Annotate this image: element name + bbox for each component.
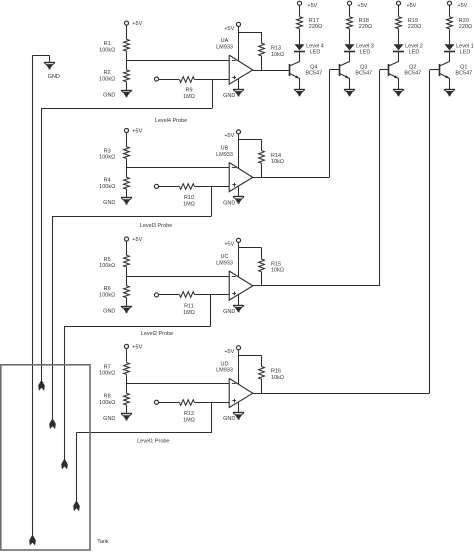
svg-text:10kΩ: 10kΩ bbox=[271, 52, 284, 58]
svg-text:GND: GND bbox=[223, 416, 235, 422]
op-amp UC LM933 bbox=[229, 271, 253, 300]
wire emitter to ground bbox=[449, 78, 451, 89]
wire Q1 base lead bbox=[430, 69, 439, 71]
resistor R3 100k bbox=[124, 147, 130, 159]
svg-text:GND: GND bbox=[223, 200, 235, 206]
svg-text:220Ω: 220Ω bbox=[359, 24, 372, 30]
resistor R5 100k bbox=[124, 255, 130, 267]
probe electrode arrow bbox=[49, 419, 56, 429]
wire to pull-up bbox=[238, 139, 261, 141]
ground (op-amp) bbox=[233, 196, 244, 198]
svg-text:+5V: +5V bbox=[132, 21, 142, 27]
+5V terminal (op-amp supply) bbox=[236, 238, 240, 242]
svg-text:BC547: BC547 bbox=[355, 70, 372, 76]
svg-text:1MΩ: 1MΩ bbox=[183, 417, 195, 423]
svg-text:Level4 Probe: Level4 Probe bbox=[155, 118, 187, 124]
wire riser UB output to Q3 base bbox=[329, 70, 331, 178]
svg-text:100kΩ: 100kΩ bbox=[99, 47, 115, 53]
wire bbox=[158, 402, 179, 404]
svg-text:LED: LED bbox=[409, 50, 420, 56]
ground electrode arrow bbox=[29, 536, 36, 546]
wire bbox=[126, 132, 128, 146]
svg-text:LED: LED bbox=[360, 50, 371, 56]
svg-text:R16: R16 bbox=[271, 369, 281, 375]
svg-text:R11: R11 bbox=[184, 304, 194, 310]
resistor R13 10k pull-up bbox=[259, 43, 265, 56]
+5V terminal (divider R1/R2) bbox=[124, 21, 128, 25]
wire to + input bbox=[195, 186, 230, 188]
wire bbox=[126, 51, 128, 70]
wire bbox=[158, 79, 179, 81]
ground (Q1 emitter) bbox=[444, 89, 455, 91]
svg-text:Level3 Probe: Level3 Probe bbox=[140, 223, 172, 229]
svg-text:100kΩ: 100kΩ bbox=[99, 155, 115, 161]
wire bbox=[449, 52, 451, 62]
wire divider junction to - input bbox=[126, 60, 229, 62]
transistor Q4 BC547 bbox=[289, 64, 291, 76]
svg-text:BC547: BC547 bbox=[455, 70, 472, 76]
svg-text:GND: GND bbox=[103, 93, 115, 99]
wire bbox=[349, 52, 351, 62]
svg-text:220Ω: 220Ω bbox=[459, 24, 472, 30]
wire bbox=[299, 52, 301, 62]
+5V terminal (divider R5/R6) bbox=[124, 237, 128, 241]
wire output UB bbox=[253, 177, 330, 179]
svg-text:Level2 Probe: Level2 Probe bbox=[141, 331, 173, 337]
svg-text:Tank: Tank bbox=[97, 539, 109, 545]
wire output UD bbox=[253, 393, 430, 395]
wire output UA bbox=[253, 70, 289, 72]
transistor Q1 BC547 bbox=[439, 64, 441, 76]
wire to pull-up bbox=[238, 32, 261, 34]
wire emitter to ground bbox=[398, 78, 400, 89]
wire bbox=[398, 52, 400, 62]
op-amp UD LM933 bbox=[229, 378, 253, 407]
transistor Q3 BC547 bbox=[339, 64, 341, 76]
resistor R2 100k bbox=[124, 70, 130, 82]
+5V terminal (Q1 column) bbox=[447, 1, 451, 5]
wire bbox=[126, 348, 128, 362]
wire V+ pin bbox=[238, 134, 240, 169]
tank bbox=[1, 365, 90, 550]
svg-text:+5V: +5V bbox=[132, 129, 142, 135]
resistor R20 220 bbox=[447, 17, 453, 29]
op-amp UB LM933 bbox=[229, 163, 253, 192]
wire bbox=[158, 294, 179, 296]
svg-text:+5V: +5V bbox=[406, 3, 416, 9]
ground (op-amp) bbox=[233, 89, 244, 91]
LED Level 1 LED bbox=[445, 44, 455, 50]
wire probe net Level3 Probe bbox=[211, 186, 213, 216]
+5V terminal (Q4 column) bbox=[297, 1, 301, 5]
svg-text:LM933: LM933 bbox=[216, 152, 233, 158]
svg-text:+5V: +5V bbox=[224, 349, 234, 355]
wire bbox=[349, 5, 351, 17]
svg-text:R15: R15 bbox=[271, 261, 281, 267]
svg-text:UC: UC bbox=[221, 254, 229, 260]
+5V terminal (op-amp supply) bbox=[236, 130, 240, 134]
wire bbox=[126, 189, 128, 198]
svg-text:R6: R6 bbox=[104, 286, 111, 292]
wire bbox=[126, 267, 128, 286]
svg-text:GND: GND bbox=[223, 93, 235, 99]
svg-text:LED: LED bbox=[460, 50, 471, 56]
wire pull-up to output bbox=[261, 163, 263, 177]
wire ground electrode into tank bbox=[32, 56, 34, 538]
ground (divider) bbox=[121, 90, 132, 92]
wire riser UC output to Q2 base bbox=[379, 70, 381, 286]
+5V terminal (divider R7/R8) bbox=[124, 344, 128, 348]
svg-text:R3: R3 bbox=[104, 148, 111, 154]
wire V+ pin bbox=[238, 26, 240, 61]
svg-text:Level1 Probe: Level1 Probe bbox=[137, 438, 169, 444]
wire V- pin to ground bbox=[238, 402, 240, 413]
svg-text:R13: R13 bbox=[271, 45, 281, 51]
resistor R10 1M bbox=[179, 184, 194, 190]
wire probe net Level4 Probe bbox=[212, 79, 214, 108]
probe electrode arrow bbox=[73, 501, 80, 511]
resistor R8 100k bbox=[124, 393, 130, 405]
resistor R14 10k pull-up bbox=[259, 151, 265, 164]
svg-text:UA: UA bbox=[221, 38, 229, 44]
svg-text:R14: R14 bbox=[271, 153, 281, 159]
svg-text:R9: R9 bbox=[185, 88, 192, 94]
svg-text:GND: GND bbox=[48, 74, 60, 80]
resistor R15 10k pull-up bbox=[259, 259, 265, 272]
svg-text:LM933: LM933 bbox=[216, 44, 233, 50]
svg-text:R8: R8 bbox=[104, 393, 111, 399]
wire bbox=[299, 5, 301, 17]
resistor R19 220 bbox=[396, 17, 402, 29]
wire bbox=[126, 298, 128, 307]
wire bbox=[158, 186, 179, 188]
LED Level 3 LED bbox=[345, 44, 355, 50]
wire output UC bbox=[253, 285, 380, 287]
svg-text:LED: LED bbox=[310, 50, 321, 56]
wire to pull-up bbox=[238, 247, 261, 249]
resistor R18 220 bbox=[347, 17, 353, 29]
probe terminal bbox=[154, 184, 158, 188]
resistor R9 1M bbox=[179, 77, 194, 83]
resistor R16 10k pull-up bbox=[259, 367, 265, 380]
svg-text:+5V: +5V bbox=[357, 3, 367, 9]
ground (Q3 emitter) bbox=[344, 89, 355, 91]
wire to + input bbox=[195, 402, 230, 404]
svg-text:220Ω: 220Ω bbox=[309, 24, 322, 30]
wire to + input bbox=[195, 79, 230, 81]
svg-text:+5V: +5V bbox=[132, 237, 142, 243]
resistor R17 220 bbox=[297, 17, 303, 29]
wire bbox=[349, 29, 351, 45]
svg-text:UB: UB bbox=[221, 146, 229, 152]
svg-text:R5: R5 bbox=[104, 257, 111, 263]
wire to pull-up bbox=[238, 355, 261, 357]
resistor R6 100k bbox=[124, 286, 130, 298]
svg-text:100kΩ: 100kΩ bbox=[99, 184, 115, 190]
resistor R11 1M bbox=[179, 292, 194, 298]
ground (divider) bbox=[121, 413, 132, 415]
svg-text:LM933: LM933 bbox=[216, 368, 233, 374]
wire divider junction to - input bbox=[126, 276, 229, 278]
svg-text:GND: GND bbox=[103, 309, 115, 315]
resistor R4 100k bbox=[124, 177, 130, 189]
wire bbox=[449, 29, 451, 45]
wire probe net Level2 Probe bbox=[210, 295, 212, 326]
wire pull-up to output bbox=[261, 379, 263, 393]
wire bbox=[299, 29, 301, 45]
svg-text:10kΩ: 10kΩ bbox=[271, 375, 284, 381]
wire bbox=[126, 159, 128, 178]
ground (op-amp) bbox=[233, 305, 244, 307]
svg-text:R12: R12 bbox=[184, 411, 194, 417]
wire pull-up to output bbox=[261, 56, 263, 70]
svg-text:100kΩ: 100kΩ bbox=[99, 371, 115, 377]
svg-text:BC547: BC547 bbox=[305, 70, 322, 76]
svg-text:LM933: LM933 bbox=[216, 260, 233, 266]
wire V+ pin bbox=[238, 350, 240, 385]
ground (reference electrode) bbox=[32, 55, 49, 57]
transistor Q2 BC547 bbox=[388, 64, 390, 76]
svg-text:UD: UD bbox=[221, 361, 229, 367]
svg-text:R2: R2 bbox=[104, 70, 111, 76]
wire bbox=[126, 241, 128, 255]
svg-text:10kΩ: 10kΩ bbox=[271, 268, 284, 274]
wire V- pin to ground bbox=[238, 186, 240, 197]
svg-text:R10: R10 bbox=[184, 195, 194, 201]
wire to + input bbox=[195, 294, 230, 296]
wire divider junction to - input bbox=[126, 383, 229, 385]
svg-text:+5V: +5V bbox=[307, 3, 317, 9]
wire divider junction to - input bbox=[126, 167, 229, 169]
probe terminal bbox=[154, 77, 158, 81]
wire Q3 base lead bbox=[330, 69, 340, 71]
ground (divider) bbox=[121, 306, 132, 308]
svg-text:R4: R4 bbox=[104, 178, 111, 184]
ground (Q2 emitter) bbox=[393, 89, 404, 91]
wire emitter to ground bbox=[349, 78, 351, 89]
svg-text:100kΩ: 100kΩ bbox=[99, 293, 115, 299]
probe terminal bbox=[154, 400, 158, 404]
wire bbox=[449, 5, 451, 17]
probe terminal bbox=[154, 293, 158, 297]
wire V- pin to ground bbox=[238, 295, 240, 306]
svg-text:10kΩ: 10kΩ bbox=[271, 159, 284, 165]
+5V terminal (op-amp supply) bbox=[236, 22, 240, 26]
LED Level 4 LED bbox=[295, 44, 305, 50]
ground (divider) bbox=[121, 197, 132, 199]
+5V terminal (divider R3/R4) bbox=[124, 128, 128, 132]
wire riser UD output to Q1 base bbox=[429, 70, 431, 394]
svg-text:+5V: +5V bbox=[224, 26, 234, 32]
svg-text:GND: GND bbox=[103, 200, 115, 206]
wire bbox=[126, 374, 128, 393]
probe electrode arrow bbox=[61, 459, 68, 469]
wire bbox=[126, 82, 128, 91]
svg-text:1MΩ: 1MΩ bbox=[183, 310, 195, 316]
wire bbox=[398, 5, 400, 17]
ground (Q4 emitter) bbox=[294, 89, 305, 91]
svg-text:+5V: +5V bbox=[457, 3, 467, 9]
svg-text:R1: R1 bbox=[104, 41, 111, 47]
op-amp UA LM933 bbox=[229, 55, 253, 84]
svg-text:1MΩ: 1MΩ bbox=[183, 201, 195, 207]
svg-text:GND: GND bbox=[103, 416, 115, 422]
svg-text:BC547: BC547 bbox=[404, 70, 421, 76]
resistor R1 100k bbox=[124, 39, 130, 51]
probe electrode arrow bbox=[38, 381, 45, 391]
resistor R12 1M bbox=[179, 400, 194, 406]
svg-text:GND: GND bbox=[223, 309, 235, 315]
svg-text:R7: R7 bbox=[104, 364, 111, 370]
wire bbox=[398, 29, 400, 45]
wire emitter to ground bbox=[299, 78, 301, 89]
wire V- pin to ground bbox=[238, 79, 240, 90]
+5V terminal (op-amp supply) bbox=[236, 346, 240, 350]
ground (op-amp) bbox=[233, 412, 244, 414]
LED Level 2 LED bbox=[394, 44, 404, 50]
wire bbox=[126, 405, 128, 414]
svg-text:100kΩ: 100kΩ bbox=[99, 263, 115, 269]
+5V terminal (Q2 column) bbox=[396, 1, 400, 5]
svg-text:220Ω: 220Ω bbox=[408, 24, 421, 30]
wire V+ pin bbox=[238, 242, 240, 277]
resistor R7 100k bbox=[124, 363, 130, 375]
svg-text:+5V: +5V bbox=[132, 344, 142, 350]
wire pull-up to output bbox=[261, 272, 263, 286]
svg-text:100kΩ: 100kΩ bbox=[99, 77, 115, 83]
wire Q2 base lead bbox=[380, 69, 389, 71]
wire bbox=[126, 25, 128, 39]
+5V terminal (Q3 column) bbox=[347, 1, 351, 5]
svg-text:+5V: +5V bbox=[224, 133, 234, 139]
wire probe net Level1 Probe bbox=[211, 402, 213, 433]
svg-text:100kΩ: 100kΩ bbox=[99, 400, 115, 406]
svg-text:1MΩ: 1MΩ bbox=[183, 94, 195, 100]
svg-text:+5V: +5V bbox=[224, 242, 234, 248]
